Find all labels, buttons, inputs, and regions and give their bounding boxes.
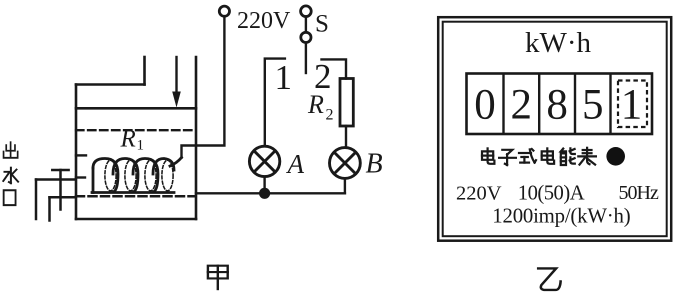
svg-text:0: 0 xyxy=(474,82,496,129)
dashed highlight box around last digit xyxy=(618,81,647,128)
switch S lower terminal xyxy=(301,32,311,42)
label 甲 xyxy=(208,266,228,289)
wire from 220V terminal down, left, to heater lead xyxy=(182,17,225,158)
label 乙 xyxy=(538,268,560,290)
svg-text:10(50)A: 10(50)A xyxy=(518,183,585,205)
svg-text:S: S xyxy=(315,11,329,38)
terminal 220V supply xyxy=(219,6,229,16)
node 2 contact wire to resistor R2 xyxy=(322,59,347,78)
wire from switch down (open pole) xyxy=(305,43,307,73)
svg-text:8: 8 xyxy=(546,82,568,129)
svg-text:1: 1 xyxy=(137,138,145,154)
svg-text:1: 1 xyxy=(621,82,643,129)
junction node xyxy=(259,188,270,199)
energy meter inner box xyxy=(443,22,667,237)
wire R2 to lamp B xyxy=(345,126,347,148)
switch S lever wire xyxy=(305,17,307,32)
switch S upper terminal xyxy=(301,6,312,17)
svg-text:A: A xyxy=(286,149,305,179)
digit register frame xyxy=(467,74,653,135)
lamp B xyxy=(330,148,361,179)
outlet faucet xyxy=(36,170,76,221)
svg-text:R: R xyxy=(307,90,324,119)
indicator lamp dot xyxy=(606,147,625,166)
svg-text:220V: 220V xyxy=(456,183,502,205)
svg-text:2: 2 xyxy=(511,82,533,129)
energy meter outer box xyxy=(438,17,671,241)
tank outline xyxy=(76,57,196,219)
wire lamp A to junction xyxy=(263,177,265,194)
resistor R2 xyxy=(340,79,353,127)
svg-text:kW·h: kW·h xyxy=(525,27,592,59)
water level dashed line xyxy=(76,129,196,131)
register cell dividers xyxy=(504,74,611,135)
svg-text:5: 5 xyxy=(582,82,604,129)
node 1 contact wire to lamp A xyxy=(265,59,285,147)
inflow arrow xyxy=(172,57,181,108)
svg-text:B: B xyxy=(366,149,383,180)
label 出水口 (vertical) xyxy=(4,142,18,158)
coil dashed back loops xyxy=(105,160,173,191)
lamp A xyxy=(249,146,279,176)
water surface line xyxy=(76,107,196,110)
bottom return wire xyxy=(196,192,345,194)
svg-text:1200imp/(kW·h): 1200imp/(kW·h) xyxy=(492,205,630,228)
wire lamp B down to bottom wire xyxy=(344,178,346,193)
wall tick lower xyxy=(76,176,85,178)
wall tick upper xyxy=(76,154,86,156)
svg-text:50Hz: 50Hz xyxy=(619,182,659,204)
label 电子式电能表 xyxy=(482,148,596,165)
svg-text:1: 1 xyxy=(275,58,293,97)
svg-text:2: 2 xyxy=(326,107,334,124)
heater coil R1 xyxy=(92,158,182,193)
inner bottom dashed line xyxy=(76,195,195,198)
svg-text:220V: 220V xyxy=(237,8,291,34)
svg-text:R: R xyxy=(120,126,136,153)
